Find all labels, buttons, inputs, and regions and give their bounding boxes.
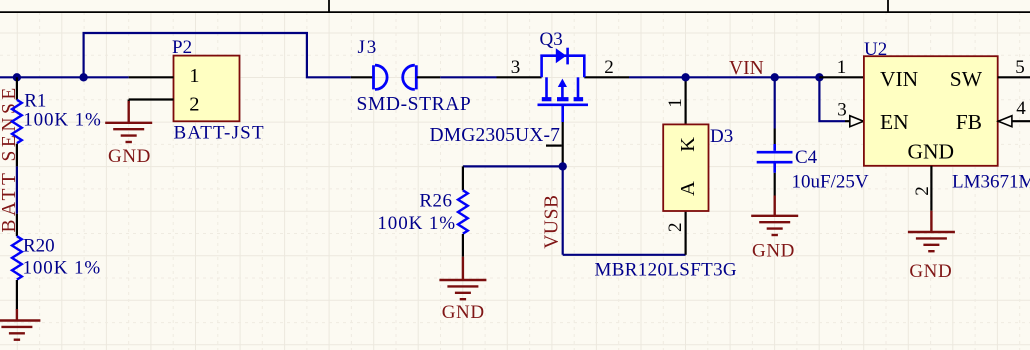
- svg-text:VIN: VIN: [729, 58, 764, 79]
- junction at D3 tap: [681, 73, 689, 81]
- wire junction to C4: [774, 77, 776, 128]
- IC U2 body: [864, 56, 998, 166]
- P2 pin 1: [129, 76, 174, 78]
- diode D3 body: [663, 124, 708, 211]
- stub under value text: [546, 145, 562, 147]
- Q3 drain pin (2): [584, 76, 629, 78]
- U2 pin 5 wire: [998, 76, 1030, 78]
- wire VUSB vertical: [562, 166, 564, 254]
- Q3 body diode triangle: [556, 48, 567, 63]
- transistor Q3 body-diode loop: [542, 56, 585, 78]
- J3 right pin: [417, 76, 441, 78]
- wire junction to EN: [819, 77, 845, 121]
- svg-text:R20: R20: [23, 235, 55, 256]
- svg-text:GND: GND: [908, 139, 955, 163]
- wire between R1 and R20: [16, 166, 18, 213]
- Q3 right channel leg: [577, 77, 580, 97]
- jumper J3 right pad: [403, 65, 417, 89]
- resistor R20: [12, 236, 22, 279]
- sheet border: [0, 11, 1030, 13]
- svg-text:SW: SW: [950, 67, 983, 91]
- resistor R20 pin top: [16, 214, 18, 236]
- svg-text:1: 1: [189, 65, 199, 87]
- svg-text:BATT-JST: BATT-JST: [174, 122, 265, 143]
- svg-text:10uF/25V: 10uF/25V: [792, 171, 869, 192]
- svg-text:U2: U2: [864, 39, 887, 60]
- svg-text:K: K: [677, 137, 699, 152]
- jumper J3 left pad: [374, 65, 388, 89]
- wire Q3 gate down: [562, 122, 564, 166]
- svg-text:GND: GND: [108, 146, 151, 167]
- P2 pin 2: [129, 98, 174, 100]
- Q3 gate pin stub: [561, 105, 564, 122]
- svg-text:100K 1%: 100K 1%: [377, 213, 456, 234]
- U2 EN pin wire: [845, 120, 864, 122]
- wire junction to R26: [463, 165, 563, 167]
- ground stem (C4): [774, 196, 776, 216]
- Q3 channel contact bars: [542, 97, 583, 101]
- svg-text:MBR120LSFT3G: MBR120LSFT3G: [595, 259, 738, 280]
- resistor R26 pin top: [462, 166, 464, 190]
- svg-text:1: 1: [837, 57, 847, 78]
- ground symbol (P2): [105, 123, 152, 142]
- ground symbol (U2): [908, 232, 955, 251]
- svg-text:100K 1%: 100K 1%: [23, 257, 102, 278]
- svg-text:2: 2: [604, 57, 614, 78]
- resistor R26 pin bottom: [462, 234, 464, 257]
- svg-text:5: 5: [1015, 57, 1025, 78]
- resistor R26: [458, 190, 468, 233]
- C4 bottom pin: [774, 173, 776, 196]
- ground symbol (R26): [439, 280, 486, 299]
- C4 top pin: [774, 129, 776, 145]
- svg-text:GND: GND: [442, 302, 485, 323]
- svg-text:R26: R26: [419, 190, 452, 211]
- svg-text:VUSB: VUSB: [542, 194, 563, 248]
- U2 pin 2 wire: [930, 166, 932, 211]
- svg-text:2: 2: [665, 223, 686, 233]
- svg-text:J3: J3: [358, 37, 379, 58]
- svg-text:GND: GND: [909, 261, 952, 282]
- wire J3 to Q3: [440, 76, 496, 78]
- svg-text:2: 2: [912, 186, 933, 196]
- svg-text:A: A: [677, 181, 699, 196]
- ground stem (R20): [16, 309, 18, 321]
- connector P2 body: [174, 56, 240, 122]
- svg-text:C4: C4: [795, 147, 818, 168]
- resistor R1 pin top: [16, 77, 18, 100]
- junction at battery sense tap: [13, 73, 21, 81]
- ground stem (R26): [462, 257, 464, 280]
- EN input arrow: [850, 116, 864, 127]
- ground symbol (R20): [0, 321, 40, 340]
- wire: battery net left segment: [0, 76, 129, 78]
- U2 pin 4 wire: [998, 120, 1030, 122]
- svg-text:GND: GND: [752, 240, 795, 261]
- svg-text:EN: EN: [880, 110, 909, 134]
- ground stem (U2): [930, 211, 932, 232]
- svg-text:3: 3: [837, 100, 847, 121]
- junction at R26 tap: [559, 162, 567, 170]
- Q3 left channel leg: [545, 77, 548, 97]
- FB input arrow: [998, 116, 1012, 127]
- junction at EN tap: [815, 73, 823, 81]
- svg-text:100K 1%: 100K 1%: [23, 109, 102, 130]
- svg-text:SMD-STRAP: SMD-STRAP: [357, 94, 472, 115]
- resistor R20 pin bottom: [16, 280, 18, 310]
- wire VUSB horizontal to D3: [563, 254, 686, 256]
- D3 pin 2: [684, 211, 686, 255]
- junction at P2 branch: [79, 73, 87, 81]
- svg-text:VIN: VIN: [880, 67, 919, 91]
- resistor R1: [12, 100, 22, 143]
- junction at C4 tap: [771, 73, 779, 81]
- U2 pin 1 wire: [819, 76, 864, 78]
- wire: top detour over P2: [84, 33, 351, 77]
- ground symbol (C4): [751, 216, 798, 235]
- D3 pin 1: [684, 77, 686, 124]
- svg-text:2: 2: [189, 93, 199, 115]
- svg-text:DMG2305UX-7: DMG2305UX-7: [430, 125, 561, 146]
- Q3 body arrow: [561, 84, 564, 98]
- svg-text:Q3: Q3: [540, 29, 563, 50]
- Q3 body diode cathode bar: [566, 48, 569, 65]
- svg-text:LM3671MF: LM3671MF: [952, 171, 1030, 192]
- Q3 gate bar: [538, 104, 589, 107]
- svg-text:3: 3: [511, 57, 521, 78]
- wire P2 pin2 to ground: [128, 100, 130, 104]
- capacitor C4: [757, 144, 793, 173]
- wire to J3 left pin: [351, 76, 373, 78]
- ground stem (P2): [127, 101, 129, 123]
- svg-text:1: 1: [665, 98, 686, 108]
- svg-text:4: 4: [1016, 98, 1026, 119]
- wire Q3 to U2: [629, 76, 819, 78]
- svg-text:FB: FB: [956, 110, 982, 134]
- resistor R1 pin bottom: [16, 144, 18, 167]
- Q3 source pin (3): [497, 76, 542, 78]
- svg-text:P2: P2: [172, 37, 192, 58]
- svg-text:D3: D3: [710, 126, 733, 147]
